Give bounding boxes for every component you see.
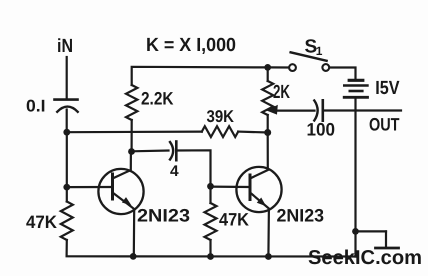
wire mid bus right segment bbox=[238, 131, 268, 134]
transistor Q1 circle bbox=[98, 169, 143, 214]
svg-text:SeekIC.com: SeekIC.com bbox=[308, 247, 422, 269]
wire top bus to switch bbox=[268, 66, 289, 68]
wire capacitor 4 to Q2 base corner bbox=[176, 150, 210, 186]
capacitor C1 0.1 top flat plate bbox=[55, 98, 78, 101]
ground bar bbox=[376, 247, 399, 250]
svg-text:2NI23: 2NI23 bbox=[137, 206, 190, 226]
svg-text:2.2K: 2.2K bbox=[141, 88, 174, 108]
potentiometer 2K top stub bbox=[267, 67, 269, 81]
transistor Q2 circle bbox=[236, 167, 281, 212]
svg-text:47K: 47K bbox=[219, 209, 249, 229]
switch S1 right contact bbox=[322, 64, 329, 71]
wire wiper to capacitor 100 bbox=[275, 109, 315, 111]
svg-text:47K: 47K bbox=[26, 212, 57, 232]
transistor Q2 collector lead bbox=[250, 133, 268, 179]
junction dot 47K2 on bus bbox=[207, 253, 214, 260]
wire OUT bus bbox=[323, 109, 401, 111]
transistor Q2 base bar bbox=[249, 175, 252, 200]
svg-text:OUT: OUT bbox=[369, 115, 400, 135]
node E junction dot Q2 base bbox=[207, 183, 214, 190]
svg-text:0.I: 0.I bbox=[26, 97, 46, 116]
capacitor C2 4 left curved plate bbox=[170, 142, 173, 160]
junction dot top of 2K bbox=[264, 64, 271, 71]
svg-text:I5V: I5V bbox=[375, 78, 400, 99]
svg-text:39K: 39K bbox=[207, 107, 235, 126]
transistor Q1 emitter lead bbox=[113, 193, 135, 257]
svg-text:1: 1 bbox=[316, 44, 323, 58]
junction dot Q2 emitter on bus bbox=[265, 253, 272, 260]
node A junction dot bbox=[63, 129, 70, 136]
wire node E down to 47K second bbox=[209, 186, 211, 203]
node C junction dot bbox=[63, 184, 70, 191]
capacitor 100 right flat plate bbox=[321, 100, 324, 120]
potentiometer wiper arrow bbox=[267, 105, 278, 115]
potentiometer 2K bottom stub bbox=[267, 115, 269, 133]
svg-text:iN: iN bbox=[57, 36, 73, 57]
wire top bus bbox=[132, 67, 268, 85]
wire 47K second to bottom bus bbox=[209, 240, 211, 257]
node D junction dot Q1 collector bbox=[128, 148, 135, 155]
capacitor 100 left curved plate bbox=[314, 101, 317, 121]
wire 2.2K bottom through bus cross to collector node bbox=[131, 120, 133, 152]
switch S1 blade bbox=[291, 52, 327, 61]
resistor 2.2K bbox=[126, 85, 137, 120]
svg-text:K = X I,000: K = X I,000 bbox=[146, 35, 236, 56]
wire node D to capacitor 4 bbox=[132, 149, 169, 152]
svg-text:2K: 2K bbox=[273, 82, 290, 103]
capacitor C2 4 right flat plate bbox=[175, 142, 178, 161]
switch S1 left contact bbox=[289, 64, 296, 71]
svg-text:4: 4 bbox=[170, 163, 179, 180]
wire ground branch vertical bbox=[385, 231, 387, 247]
capacitor C1 0.1 bottom curved plate bbox=[57, 107, 77, 112]
wire Q2 base lead bbox=[211, 186, 249, 189]
wire ground branch horizontal bbox=[356, 230, 387, 232]
transistor Q1 emitter arrowhead bbox=[122, 197, 132, 205]
battery B1 plate 4 long bbox=[344, 96, 367, 99]
resistor 47K first bbox=[61, 202, 73, 241]
transistor Q2 emitter lead bbox=[250, 193, 269, 257]
resistor 39K bbox=[202, 126, 238, 137]
node B junction dot at 2K bottom bbox=[264, 129, 271, 136]
wire capacitor to node A bbox=[66, 110, 68, 133]
wire IN vertical down to capacitor bbox=[66, 57, 68, 99]
svg-text:2NI23: 2NI23 bbox=[277, 206, 325, 226]
svg-text:100: 100 bbox=[307, 119, 336, 139]
wire battery down to ground node bbox=[354, 99, 356, 257]
potentiometer 2K body bbox=[262, 81, 273, 115]
resistor 47K second bbox=[205, 203, 217, 240]
battery B1 plate 3 short bbox=[350, 90, 363, 93]
wire mid bus left segment bbox=[67, 131, 202, 134]
wire Q1 base lead bbox=[67, 186, 111, 188]
junction dot Q1 emitter on bus bbox=[130, 253, 137, 260]
wire node C down to 47K bbox=[66, 187, 68, 201]
transistor Q1 base bar bbox=[111, 174, 114, 199]
transistor Q2 emitter arrowhead bbox=[257, 198, 266, 207]
node F junction dot ground branch bbox=[352, 228, 359, 235]
wire left vertical node A to base node bbox=[66, 132, 68, 187]
battery B1 plate 1 short thick bbox=[349, 79, 363, 82]
transistor Q1 collector lead bbox=[113, 152, 131, 179]
wire 47K to bottom bus corner bbox=[67, 240, 356, 257]
battery B1 plate 2 long bbox=[344, 84, 367, 86]
wire switch to battery corner bbox=[330, 68, 356, 80]
